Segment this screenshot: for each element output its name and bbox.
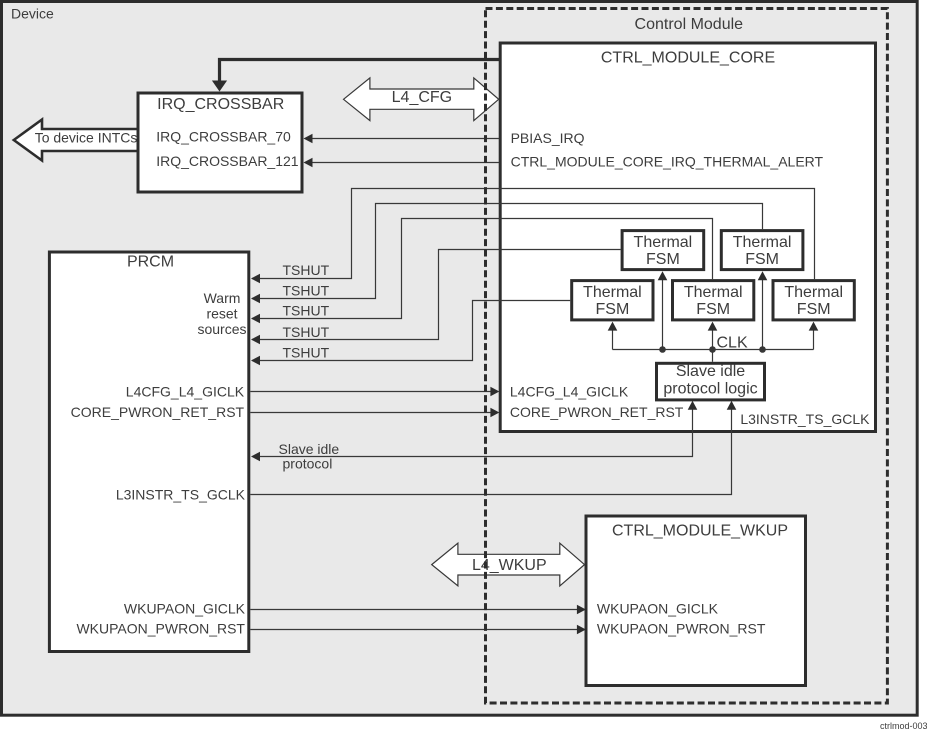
svg-text:Device: Device xyxy=(11,6,54,22)
svg-text:FSM: FSM xyxy=(696,301,730,318)
svg-text:protocol: protocol xyxy=(283,456,333,472)
svg-text:CORE_PWRON_RET_RST: CORE_PWRON_RET_RST xyxy=(510,404,684,420)
svg-text:Warm: Warm xyxy=(204,290,241,306)
svg-text:IRQ_CROSSBAR: IRQ_CROSSBAR xyxy=(157,96,284,113)
svg-text:TSHUT: TSHUT xyxy=(283,282,330,298)
svg-text:Thermal: Thermal xyxy=(684,284,743,301)
svg-text:reset: reset xyxy=(206,306,237,322)
svg-text:L4CFG_L4_GICLK: L4CFG_L4_GICLK xyxy=(126,383,245,399)
svg-text:Control Module: Control Module xyxy=(635,16,744,33)
svg-text:ctrlmod-003: ctrlmod-003 xyxy=(880,721,927,730)
svg-text:L3INSTR_TS_GCLK: L3INSTR_TS_GCLK xyxy=(116,487,246,503)
svg-text:WKUPAON_PWRON_RST: WKUPAON_PWRON_RST xyxy=(76,621,245,637)
svg-text:PRCM: PRCM xyxy=(127,253,174,270)
svg-text:protocol logic: protocol logic xyxy=(663,381,757,398)
svg-text:Thermal: Thermal xyxy=(784,284,843,301)
svg-text:FSM: FSM xyxy=(797,301,831,318)
svg-text:PBIAS_IRQ: PBIAS_IRQ xyxy=(511,130,585,146)
svg-text:WKUPAON_GICLK: WKUPAON_GICLK xyxy=(597,601,719,617)
svg-text:TSHUT: TSHUT xyxy=(283,302,330,318)
svg-text:IRQ_CROSSBAR_70: IRQ_CROSSBAR_70 xyxy=(156,129,291,145)
svg-text:CORE_PWRON_RET_RST: CORE_PWRON_RET_RST xyxy=(71,404,245,420)
svg-text:WKUPAON_GICLK: WKUPAON_GICLK xyxy=(124,601,246,617)
svg-text:L4_CFG: L4_CFG xyxy=(392,89,452,106)
svg-text:FSM: FSM xyxy=(745,251,779,268)
svg-text:sources: sources xyxy=(197,321,246,337)
svg-text:TSHUT: TSHUT xyxy=(283,262,330,278)
svg-text:CTRL_MODULE_WKUP: CTRL_MODULE_WKUP xyxy=(612,522,788,539)
svg-text:L4CFG_L4_GICLK: L4CFG_L4_GICLK xyxy=(510,383,629,399)
svg-text:L3INSTR_TS_GCLK: L3INSTR_TS_GCLK xyxy=(740,411,870,427)
svg-text:TSHUT: TSHUT xyxy=(283,324,330,340)
svg-text:Thermal: Thermal xyxy=(634,234,693,251)
svg-text:CLK: CLK xyxy=(717,334,748,351)
svg-text:L4_WKUP: L4_WKUP xyxy=(472,557,547,574)
svg-text:CTRL_MODULE_CORE_IRQ_THERMAL_A: CTRL_MODULE_CORE_IRQ_THERMAL_ALERT xyxy=(511,154,824,170)
svg-text:CTRL_MODULE_CORE: CTRL_MODULE_CORE xyxy=(601,50,775,67)
svg-text:IRQ_CROSSBAR_121: IRQ_CROSSBAR_121 xyxy=(156,153,299,169)
svg-text:Thermal: Thermal xyxy=(583,284,642,301)
svg-text:FSM: FSM xyxy=(646,251,680,268)
svg-text:TSHUT: TSHUT xyxy=(283,345,330,361)
svg-text:FSM: FSM xyxy=(596,301,630,318)
svg-text:WKUPAON_PWRON_RST: WKUPAON_PWRON_RST xyxy=(597,621,766,637)
svg-text:Slave idle: Slave idle xyxy=(676,363,745,380)
svg-text:To device INTCs: To device INTCs xyxy=(35,130,138,146)
svg-text:Thermal: Thermal xyxy=(733,234,792,251)
